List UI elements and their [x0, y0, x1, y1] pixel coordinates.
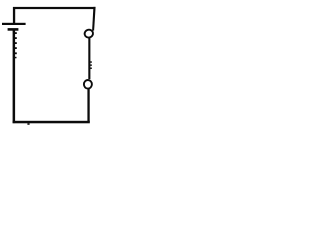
terminal B (open circle, bottom): [84, 80, 92, 89]
wire left lower jagged edge ticks: [15, 32, 17, 58]
wire left lower (cell down to bottom-left corner): [13, 30, 16, 123]
wire right lower (terminal B down to bottom-right corner): [87, 89, 89, 123]
wire top (from battery branch to right branch): [13, 7, 95, 9]
wire bottom small nick: [27, 123, 29, 125]
battery cell B1 short plate (negative terminal): [8, 28, 19, 31]
wire middle (terminal A down to terminal B): [88, 38, 90, 79]
battery cell B1 long plate (positive terminal): [2, 23, 26, 25]
wire left upper (top corner down to cell long plate): [13, 7, 15, 24]
terminal A (open circle, top): [84, 29, 94, 38]
wire bottom (bottom-left corner to bottom-right corner): [13, 121, 90, 124]
wire middle jagged edge ticks: [90, 61, 92, 69]
wire right upper (top corner down to terminal A): [92, 7, 96, 31]
